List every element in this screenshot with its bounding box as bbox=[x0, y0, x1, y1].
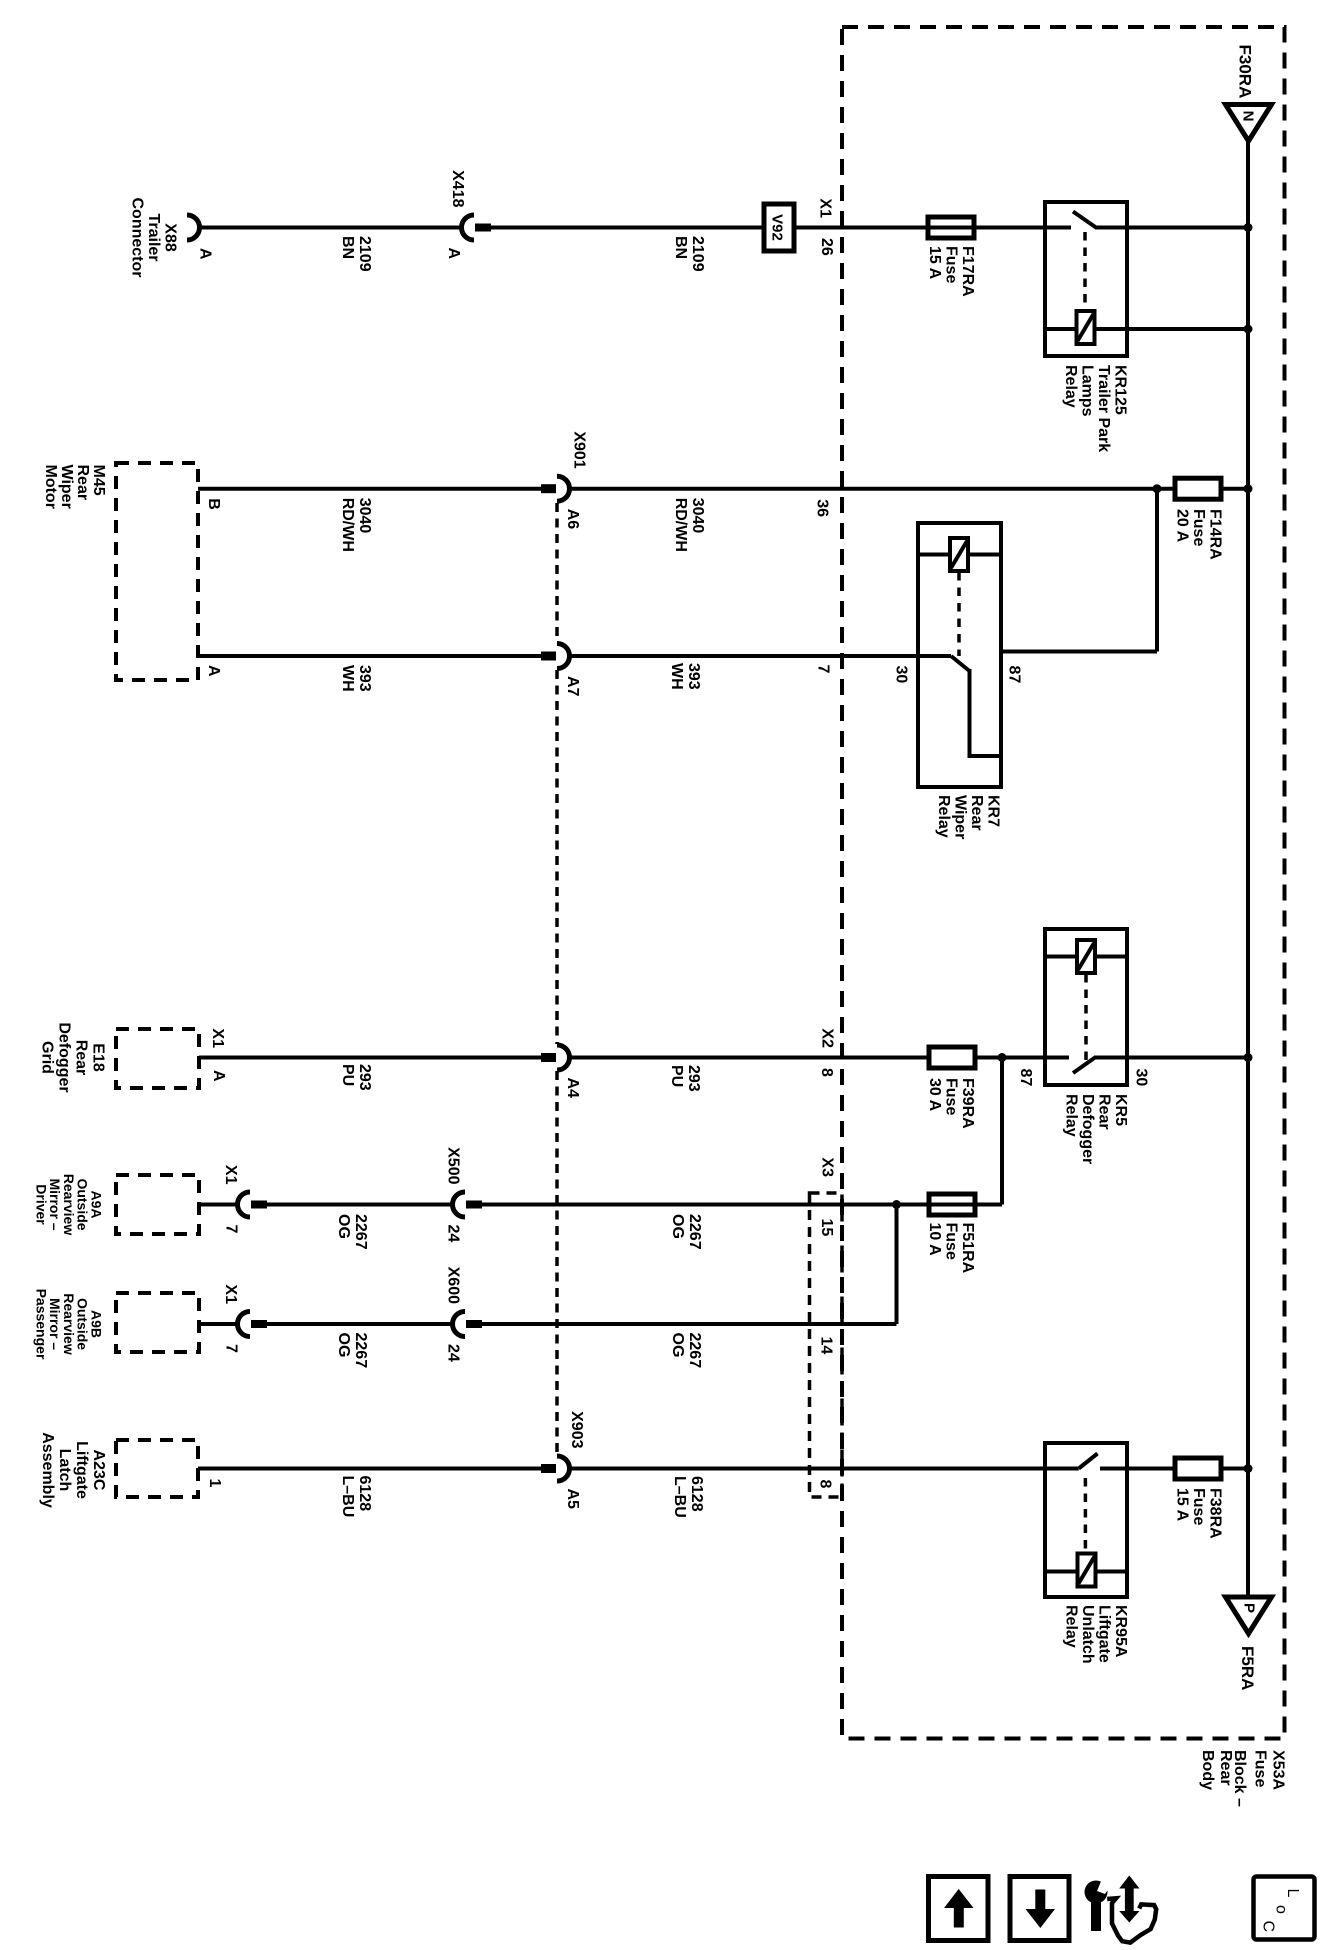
wire 6128 L-BU segment 2 bbox=[568, 1467, 1045, 1471]
wire 2109 BN segment 2 bbox=[490, 226, 764, 230]
page connector F30RA triangle N bbox=[1226, 105, 1272, 142]
svg-text:30: 30 bbox=[1133, 1069, 1150, 1087]
svg-text:X1: X1 bbox=[209, 1028, 226, 1048]
wire 393 WH segment 2 bbox=[568, 654, 918, 658]
wire 2267 OG psg segment 1 bbox=[267, 1322, 452, 1326]
wire 2109 BN segment 1 bbox=[199, 226, 462, 230]
junction bus / KR5 30 bbox=[1244, 1053, 1253, 1062]
svg-text:30: 30 bbox=[893, 666, 910, 684]
svg-text:X1: X1 bbox=[222, 1284, 239, 1304]
wire F51RA riser bbox=[1000, 1058, 1004, 1205]
svg-text:X600: X600 bbox=[445, 1267, 462, 1304]
wire 2267 OG psg segment 2 bbox=[482, 1322, 897, 1326]
wire 293 PU segment 2 bbox=[568, 1056, 929, 1060]
svg-text:X901: X901 bbox=[571, 431, 588, 468]
wire 6128 L-BU segment 1 bbox=[198, 1467, 541, 1471]
KR95A switch input stub bbox=[1045, 1467, 1079, 1471]
wire 2267 OG drv segment 1 bbox=[267, 1203, 452, 1207]
fuse F17RA bbox=[928, 217, 974, 238]
svg-text:X500: X500 bbox=[445, 1147, 462, 1184]
junction bus / F38RA bbox=[1244, 1464, 1253, 1473]
svg-text:6128L–BU: 6128L–BU bbox=[671, 1476, 705, 1518]
icon LOC box bbox=[1254, 1877, 1315, 1940]
svg-text:X1: X1 bbox=[817, 198, 834, 218]
KR95A coil dashed link bbox=[1084, 1478, 1088, 1552]
svg-text:7: 7 bbox=[815, 665, 832, 674]
splice dashed link A4-A5 bbox=[555, 1071, 559, 1455]
KR95A coil wire bbox=[1045, 1570, 1127, 1574]
KR7 87 wire out bbox=[1001, 650, 1157, 654]
relay KR5 box bbox=[1045, 929, 1127, 1085]
splice dashed link A7-A4 bbox=[555, 670, 559, 1044]
KR5 switch arm bbox=[1073, 1058, 1095, 1074]
connector X600 bbox=[453, 1312, 466, 1337]
KR125 switch output to bus bbox=[1095, 226, 1248, 230]
svg-text:B: B bbox=[205, 498, 222, 510]
KR125 coil bbox=[1077, 311, 1095, 344]
bus wire bbox=[1246, 141, 1250, 1597]
svg-text:6128L–BU: 6128L–BU bbox=[339, 1476, 373, 1518]
junction bus / F14RA bbox=[1244, 484, 1253, 493]
wire to fuse F17RA bbox=[794, 226, 1045, 230]
svg-text:N: N bbox=[1240, 111, 1257, 122]
KR7 87 riser to F14RA bbox=[1155, 489, 1159, 652]
svg-text:A5: A5 bbox=[564, 1489, 581, 1510]
svg-text:1: 1 bbox=[206, 1479, 223, 1488]
svg-text:X1: X1 bbox=[222, 1165, 239, 1185]
KR5 switch input stub bbox=[1045, 1056, 1069, 1060]
KR7 switch arm bbox=[951, 656, 970, 671]
wire F39RA to KR5 bbox=[975, 1056, 1045, 1060]
svg-text:F5RA: F5RA bbox=[1238, 1646, 1257, 1690]
svg-text:X3: X3 bbox=[819, 1157, 836, 1177]
icon up-arrow box bbox=[929, 1877, 989, 1941]
svg-text:15: 15 bbox=[818, 1219, 835, 1237]
KR7 coil bbox=[950, 538, 968, 571]
svg-text:X903: X903 bbox=[568, 1411, 585, 1448]
svg-text:87: 87 bbox=[1006, 666, 1023, 684]
KR125 switch input stub bbox=[1045, 226, 1071, 230]
M45 box bbox=[116, 463, 198, 680]
svg-text:A: A bbox=[197, 248, 214, 260]
connector A9A X1 pin 7 bbox=[238, 1192, 251, 1217]
KR7 coil wire bbox=[918, 553, 1001, 557]
junction mirror wires bbox=[892, 1200, 901, 1209]
KR125 coil dashed link bbox=[1083, 232, 1087, 310]
passenger mirror riser bbox=[895, 1205, 899, 1325]
svg-text:X2: X2 bbox=[819, 1028, 836, 1048]
svg-text:A: A bbox=[210, 1070, 227, 1082]
svg-text:X418: X418 bbox=[449, 170, 466, 207]
A23C box bbox=[116, 1440, 198, 1497]
icon down-arrow box bbox=[1010, 1877, 1069, 1941]
KR5 coil dashed link bbox=[1084, 974, 1088, 1060]
splice A4 bbox=[541, 1053, 556, 1062]
fuse F38RA bbox=[1175, 1458, 1221, 1479]
connector A9B X1 pin 7 bbox=[238, 1312, 251, 1337]
svg-text:24: 24 bbox=[445, 1344, 462, 1362]
relay KR125 box bbox=[1045, 202, 1127, 356]
svg-text:26: 26 bbox=[818, 238, 835, 256]
svg-text:A: A bbox=[205, 665, 222, 677]
connector X3 dashed box bbox=[810, 1193, 843, 1497]
fuse F39RA bbox=[929, 1047, 975, 1068]
wire 3040 RD/WH segment 2 bbox=[568, 487, 1175, 491]
page connector F5RA triangle P bbox=[1226, 1597, 1272, 1634]
A9B box bbox=[116, 1293, 199, 1352]
wire 293 PU segment 1 bbox=[199, 1056, 541, 1060]
splice A7 bbox=[541, 652, 556, 661]
svg-text:7: 7 bbox=[223, 1344, 240, 1353]
junction F14RA / KR7 87 bbox=[1153, 484, 1162, 493]
svg-text:A7: A7 bbox=[564, 676, 581, 697]
wire F38RA to bus bbox=[1220, 1467, 1248, 1471]
svg-text:8: 8 bbox=[817, 1480, 834, 1489]
svg-text:F30RA: F30RA bbox=[1236, 45, 1255, 99]
KR95A coil bbox=[1078, 1554, 1096, 1587]
svg-text:393WH: 393WH bbox=[668, 663, 702, 690]
svg-text:8: 8 bbox=[818, 1068, 835, 1077]
svg-text:14: 14 bbox=[818, 1337, 835, 1355]
wire 2267 OG drv segment 2 bbox=[482, 1203, 1002, 1207]
KR95A switch output bbox=[1100, 1467, 1176, 1471]
junction bus / KR125 30 bbox=[1244, 223, 1253, 232]
KR125 switch arm bbox=[1073, 212, 1096, 228]
icon double arrow bbox=[1119, 1876, 1139, 1923]
svg-text:C: C bbox=[1260, 1921, 1277, 1933]
splice X903 A5 bbox=[541, 1464, 556, 1473]
fuse F14RA bbox=[1175, 478, 1221, 499]
KR5 coil bbox=[1077, 940, 1095, 973]
A9B pigtail stub bbox=[199, 1322, 237, 1326]
in-line diode V92 box bbox=[764, 204, 794, 251]
fuse block X53A border bbox=[842, 27, 1285, 1739]
KR125 coil wire to bus bbox=[1045, 327, 1248, 331]
A9A box bbox=[116, 1175, 199, 1234]
fuse F51RA bbox=[929, 1194, 975, 1215]
E18 box bbox=[116, 1029, 199, 1088]
svg-text:24: 24 bbox=[445, 1225, 462, 1243]
icon pouch outline bbox=[1107, 1898, 1156, 1942]
wire 393 WH segment 1 bbox=[198, 654, 541, 658]
svg-text:A: A bbox=[445, 248, 462, 260]
junction bus / KR125 coil bbox=[1244, 325, 1253, 334]
svg-text:o: o bbox=[1273, 1905, 1290, 1914]
relay KR7 box bbox=[918, 523, 1001, 787]
connector X418 bbox=[461, 215, 474, 240]
svg-text:A4: A4 bbox=[564, 1078, 581, 1099]
svg-text:L: L bbox=[1284, 1889, 1301, 1898]
A9A pigtail stub bbox=[199, 1203, 237, 1207]
wire fuse F14RA to bus bbox=[1221, 487, 1248, 491]
svg-text:P: P bbox=[1241, 1603, 1258, 1613]
KR7 switch output path bbox=[970, 669, 1002, 756]
svg-text:A6: A6 bbox=[564, 509, 581, 530]
svg-text:7: 7 bbox=[223, 1225, 240, 1234]
svg-text:V92: V92 bbox=[769, 214, 786, 241]
svg-text:393WH: 393WH bbox=[339, 665, 373, 692]
relay KR95A box bbox=[1045, 1443, 1127, 1597]
KR7 switch input stub bbox=[918, 654, 951, 658]
junction F39RA/F51RA node bbox=[998, 1053, 1007, 1062]
splice X901 A6 bbox=[541, 484, 556, 493]
svg-text:87: 87 bbox=[1017, 1069, 1034, 1087]
svg-text:36: 36 bbox=[814, 499, 831, 517]
connector X500 bbox=[453, 1192, 466, 1217]
connector X88 arc bbox=[187, 215, 200, 240]
KR5 switch output to bus bbox=[1094, 1056, 1248, 1060]
KR7 coil dashed link bbox=[957, 572, 961, 656]
wire 3040 RD/WH segment 1 bbox=[198, 487, 541, 491]
KR5 coil wire bbox=[1045, 955, 1127, 959]
splice dashed link X901-A7 bbox=[555, 503, 559, 642]
KR95A switch arm bbox=[1079, 1454, 1098, 1469]
icon wrench bbox=[1085, 1881, 1108, 1904]
